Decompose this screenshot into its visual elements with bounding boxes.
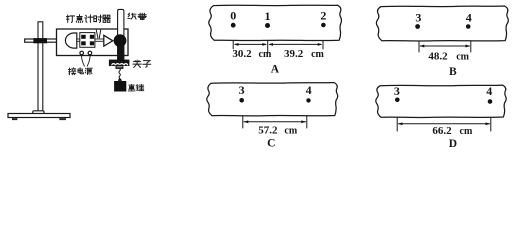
svg-text:cm: cm xyxy=(460,126,473,137)
svg-text:cm: cm xyxy=(259,49,272,60)
svg-text:4: 4 xyxy=(486,84,492,98)
svg-text:B: B xyxy=(449,66,457,78)
svg-text:57.2: 57.2 xyxy=(258,124,278,136)
svg-text:0: 0 xyxy=(230,9,236,23)
svg-text:4: 4 xyxy=(466,11,472,25)
svg-text:66.2: 66.2 xyxy=(432,125,452,137)
svg-text:1: 1 xyxy=(265,9,271,23)
svg-text:C: C xyxy=(267,138,275,150)
svg-text:2: 2 xyxy=(320,8,326,22)
svg-text:4: 4 xyxy=(306,83,312,97)
svg-text:A: A xyxy=(271,64,280,76)
svg-text:30.2: 30.2 xyxy=(232,48,252,60)
svg-text:3: 3 xyxy=(415,11,421,25)
svg-text:3: 3 xyxy=(394,84,400,98)
svg-text:D: D xyxy=(449,138,457,150)
svg-text:3: 3 xyxy=(239,83,245,97)
svg-text:48.2: 48.2 xyxy=(428,50,448,62)
svg-text:39.2: 39.2 xyxy=(284,48,304,60)
svg-text:cm: cm xyxy=(311,49,324,60)
svg-text:cm: cm xyxy=(284,125,297,136)
svg-text:cm: cm xyxy=(456,51,469,62)
